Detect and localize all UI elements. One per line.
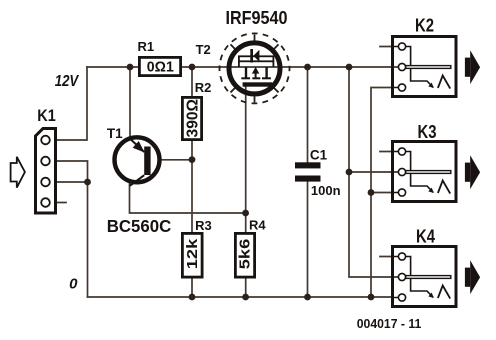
svg-text:12V: 12V [55,73,80,90]
svg-text:K3: K3 [418,122,437,142]
svg-text:R1: R1 [137,39,154,54]
svg-text:004017 - 11: 004017 - 11 [357,316,422,331]
svg-text:K4: K4 [416,227,435,247]
svg-text:12k: 12k [185,238,201,270]
svg-text:R4: R4 [249,218,266,233]
svg-text:C1: C1 [310,148,328,163]
svg-text:R2: R2 [195,80,212,95]
svg-text:T2: T2 [196,42,211,57]
svg-text:390Ω: 390Ω [185,99,202,138]
svg-text:BC560C: BC560C [107,216,172,236]
svg-text:K2: K2 [415,15,434,35]
svg-text:K1: K1 [37,106,56,125]
svg-text:100n: 100n [311,183,341,198]
svg-text:T1: T1 [107,126,123,141]
svg-text:5k6: 5k6 [238,239,254,270]
svg-text:0Ω1: 0Ω1 [147,59,174,75]
svg-text:0: 0 [69,275,78,292]
svg-text:R3: R3 [195,218,212,233]
svg-text:IRF9540: IRF9540 [226,8,288,28]
